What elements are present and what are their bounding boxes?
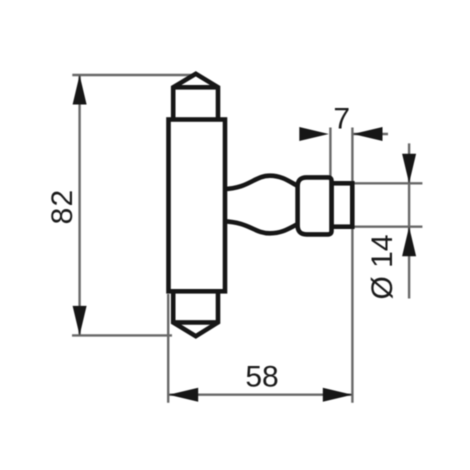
- svg-text:58: 58: [245, 361, 278, 394]
- svg-text:82: 82: [46, 189, 79, 225]
- svg-text:7: 7: [333, 103, 350, 136]
- svg-text:Ø 14: Ø 14: [366, 234, 399, 299]
